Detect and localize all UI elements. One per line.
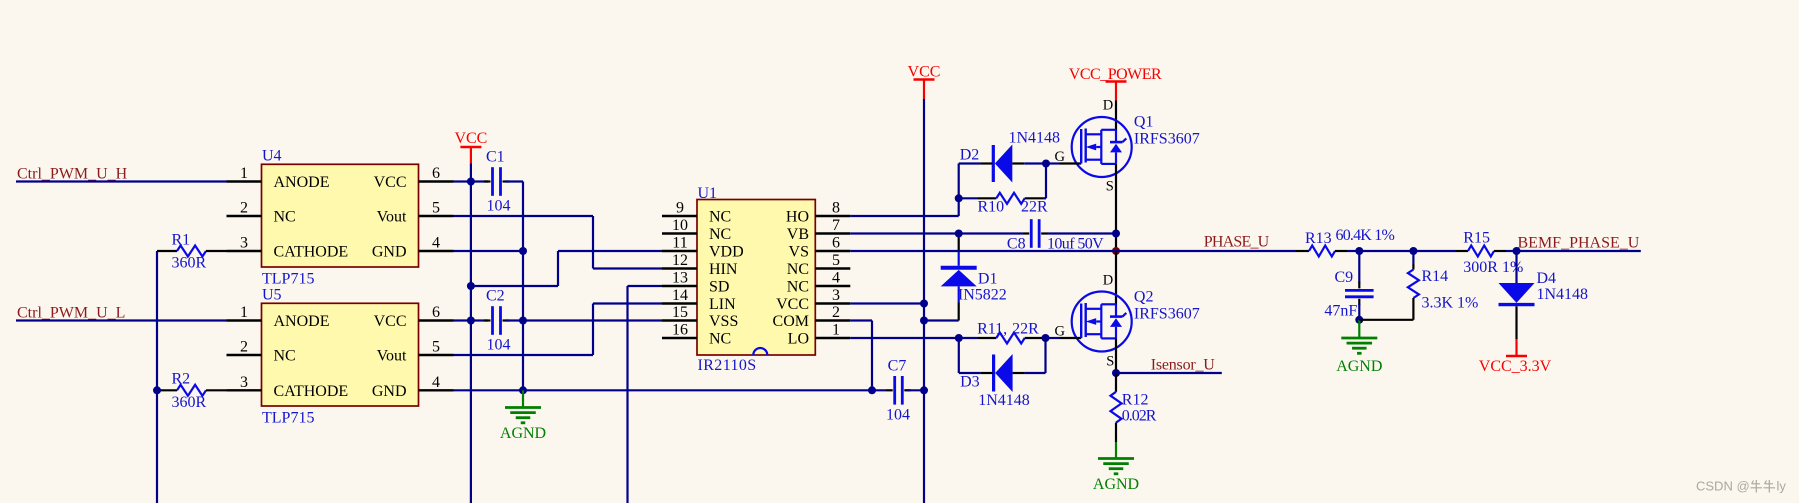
svg-text:D2: D2	[960, 147, 980, 164]
svg-text:ANODE: ANODE	[274, 174, 330, 191]
svg-text:D1: D1	[978, 271, 998, 288]
svg-text:4: 4	[432, 235, 440, 252]
svg-text:LIN: LIN	[709, 296, 736, 313]
svg-text:D4: D4	[1537, 270, 1557, 287]
svg-text:PHASE_U: PHASE_U	[1204, 234, 1270, 251]
svg-text:IR2110S: IR2110S	[698, 357, 757, 374]
diode D2 1N4148	[959, 130, 1060, 183]
junction VCC / U4 pin6	[467, 178, 475, 186]
svg-text:1: 1	[832, 322, 840, 339]
svg-text:10: 10	[672, 217, 688, 234]
svg-text:NC: NC	[787, 261, 809, 278]
watermark CSDN	[1696, 479, 1786, 494]
svg-text:VCC_3.3V: VCC_3.3V	[1479, 358, 1552, 375]
wire BEMF_PHASE_U net	[1517, 250, 1641, 252]
svg-text:6: 6	[432, 304, 440, 321]
svg-text:D: D	[1103, 98, 1113, 114]
svg-text:ly: ly	[1777, 479, 1787, 494]
wire Ctrl_PWM_U_L net	[16, 319, 227, 321]
wire U4 GND pin4	[454, 250, 524, 252]
svg-text:IN5822: IN5822	[958, 287, 1007, 304]
wire Q1 gate	[1046, 162, 1060, 164]
svg-text:R10: R10	[978, 199, 1005, 216]
transistor Q1 IRFS3607	[1060, 114, 1200, 178]
capacitor C1 104	[471, 149, 523, 215]
wire U5 VCC pin6	[454, 319, 471, 321]
junction AGND / VSS-C2	[519, 317, 527, 325]
svg-text:U4: U4	[262, 147, 282, 164]
junction R2 left	[153, 386, 161, 394]
svg-text:Ctrl_PWM_U_H: Ctrl_PWM_U_H	[17, 166, 128, 183]
power VCC (left)	[454, 130, 487, 164]
svg-text:Q1: Q1	[1134, 114, 1154, 131]
resistor R14 3.3K 1%	[1359, 251, 1478, 320]
junction LO / R11 left	[955, 334, 963, 342]
svg-text:VCC: VCC	[776, 296, 809, 313]
svg-text:2: 2	[832, 304, 840, 321]
svg-text:HIN: HIN	[709, 261, 738, 278]
svg-text:5: 5	[432, 200, 440, 217]
wire D1 branch	[924, 303, 959, 321]
junction phase node	[1112, 247, 1120, 255]
svg-text:NC: NC	[274, 209, 296, 226]
junction R14 top	[1409, 247, 1417, 255]
capacitor C9 47nF	[1324, 251, 1373, 320]
wire U1 VCC pin3	[850, 302, 924, 304]
power VCC (mid)	[908, 64, 941, 100]
svg-text:VS: VS	[789, 244, 809, 261]
svg-text:6: 6	[432, 165, 440, 182]
svg-text:3: 3	[240, 374, 248, 391]
svg-text:NC: NC	[274, 348, 296, 365]
svg-text:VCC: VCC	[374, 174, 407, 191]
svg-text:104: 104	[886, 406, 910, 423]
junction VCC / U5 pin6	[467, 317, 475, 325]
svg-text:R1: R1	[172, 232, 191, 249]
wire R10 right vertical	[1045, 164, 1047, 199]
wire Q2 drain	[1115, 251, 1117, 305]
wire Q2 gate	[1046, 337, 1061, 339]
diode D1 IN5822	[941, 234, 1007, 304]
junction VCC / C7	[920, 386, 928, 394]
svg-text:1N4148: 1N4148	[978, 392, 1030, 409]
svg-text:TLP715: TLP715	[262, 270, 314, 287]
svg-text:VDD: VDD	[709, 244, 744, 261]
svg-text:D3: D3	[960, 374, 980, 391]
svg-text:9: 9	[676, 200, 684, 217]
svg-text:AGND: AGND	[500, 425, 546, 442]
wire SD net	[628, 286, 663, 503]
wire Ctrl_PWM_U_H net	[16, 180, 227, 182]
svg-text:12: 12	[672, 252, 688, 269]
svg-text:4: 4	[832, 270, 840, 287]
svg-text:360R: 360R	[172, 394, 207, 411]
svg-text:22R: 22R	[1012, 321, 1039, 338]
svg-text:S: S	[1106, 179, 1114, 195]
svg-text:Isensor_U: Isensor_U	[1151, 356, 1216, 373]
junction VCC / U1 pin3	[920, 300, 928, 308]
svg-text:60.4K 1%: 60.4K 1%	[1336, 227, 1395, 244]
svg-text:R12: R12	[1122, 391, 1149, 408]
ground AGND (below R12)	[1115, 442, 1117, 459]
wire R14 to R15	[1413, 250, 1456, 252]
svg-text:U5: U5	[262, 286, 282, 303]
svg-text:3.3K 1%: 3.3K 1%	[1422, 295, 1479, 312]
diode D3 1N4148	[959, 338, 1046, 409]
ground AGND (right)	[1358, 320, 1360, 338]
junction Q2 gate node	[1042, 334, 1050, 342]
svg-text:C2: C2	[486, 288, 505, 305]
svg-text:C9: C9	[1335, 269, 1354, 286]
junction Q1 gate node	[1042, 160, 1050, 168]
svg-text:C7: C7	[888, 357, 907, 374]
svg-text:TLP715: TLP715	[262, 409, 314, 426]
resistor R13 60.4K 1%	[1296, 227, 1394, 257]
svg-text:IRFS3607: IRFS3607	[1134, 131, 1200, 148]
junction HO / R10 left	[955, 194, 963, 202]
junction AGND symbol (left)	[519, 386, 527, 394]
svg-text:Vout: Vout	[377, 348, 407, 365]
wire VDD net (VCC to U1 pin11)	[471, 251, 662, 286]
svg-text:CATHODE: CATHODE	[274, 383, 349, 400]
svg-text:IRFS3607: IRFS3607	[1134, 306, 1200, 323]
junction VB / C8 right	[1112, 230, 1120, 238]
junction COM / AGND row	[868, 386, 876, 394]
wire Q1 source to phase node	[1115, 164, 1117, 251]
optocoupler U5 TLP715	[227, 286, 454, 426]
svg-text:7: 7	[832, 217, 840, 234]
svg-text:VB: VB	[787, 226, 809, 243]
svg-text:3: 3	[240, 235, 248, 252]
power VCC_POWER	[1069, 66, 1162, 101]
svg-text:AGND: AGND	[1093, 476, 1139, 493]
svg-text:HO: HO	[786, 209, 809, 226]
svg-text:R13: R13	[1305, 230, 1332, 247]
svg-text:8: 8	[832, 200, 840, 217]
svg-text:D: D	[1103, 272, 1113, 288]
wire U4 VCC pin6	[454, 180, 471, 182]
resistor R10 22R	[959, 193, 1048, 216]
svg-text:300R 1%: 300R 1%	[1463, 259, 1523, 276]
svg-text:NC: NC	[709, 226, 731, 243]
junction Isensor node	[1112, 369, 1120, 377]
svg-text:1: 1	[240, 304, 248, 321]
capacitor C2 104	[471, 288, 523, 354]
wire Q1 drain	[1115, 101, 1117, 131]
svg-text:R2: R2	[172, 371, 191, 388]
svg-text:SD: SD	[709, 279, 729, 296]
svg-text:NC: NC	[709, 331, 731, 348]
svg-text:104: 104	[487, 337, 511, 354]
ground AGND (left)	[522, 390, 524, 407]
diode D4 1N4148	[1499, 251, 1589, 339]
wire VB net	[850, 232, 1023, 234]
svg-text:R11,: R11,	[977, 321, 1007, 338]
resistor R12 0.02R	[1111, 373, 1157, 442]
svg-text:14: 14	[672, 287, 688, 304]
svg-text:5: 5	[432, 339, 440, 356]
junction VCC / D1 branch	[920, 317, 928, 325]
svg-text:COM: COM	[773, 313, 809, 330]
svg-text:VCC: VCC	[908, 64, 941, 81]
svg-text:NC: NC	[709, 209, 731, 226]
wire COM to AGND	[850, 321, 872, 391]
svg-text:5: 5	[832, 252, 840, 269]
optocoupler U4 TLP715	[227, 147, 454, 287]
power VCC_3.3V	[1479, 339, 1552, 375]
wire VSS to AGND	[523, 319, 662, 321]
wire VCC vertical (left)	[470, 164, 472, 503]
wire HO net	[850, 164, 958, 217]
junction AGND / U4 pin4	[519, 247, 527, 255]
svg-text:R14: R14	[1422, 268, 1449, 285]
svg-text:6: 6	[832, 235, 840, 252]
svg-text:ANODE: ANODE	[274, 313, 330, 330]
svg-text:3: 3	[832, 287, 840, 304]
svg-text:1: 1	[240, 165, 248, 182]
svg-text:1N4148: 1N4148	[1537, 286, 1589, 303]
junction VCC / VDD branch	[467, 282, 475, 290]
svg-text:CATHODE: CATHODE	[274, 244, 349, 261]
svg-text:CSDN @: CSDN @	[1696, 479, 1750, 494]
svg-text:2: 2	[240, 200, 248, 217]
wire R13 to R14	[1359, 250, 1413, 252]
svg-text:22R: 22R	[1021, 199, 1048, 216]
svg-text:2: 2	[240, 339, 248, 356]
svg-text:13: 13	[672, 270, 688, 287]
svg-text:VCC: VCC	[454, 130, 487, 147]
svg-text:VCC: VCC	[374, 313, 407, 330]
capacitor C8 10uf 50V	[1007, 219, 1116, 252]
svg-text:11: 11	[672, 235, 687, 252]
wire LO net	[850, 337, 959, 339]
svg-text:S: S	[1106, 353, 1114, 369]
IC U1 IR2110S	[662, 185, 850, 374]
wire U5 Vout to U1 LIN	[454, 304, 663, 356]
svg-text:BEMF_PHASE_U: BEMF_PHASE_U	[1518, 234, 1640, 251]
transistor Q2 IRFS3607	[1060, 289, 1200, 352]
wire R1-R2 vertical	[156, 251, 158, 503]
svg-text:VSS: VSS	[709, 313, 738, 330]
resistor R2 360R	[157, 371, 227, 411]
wire VCC vertical (mid)	[923, 99, 925, 503]
svg-text:GND: GND	[372, 383, 407, 400]
wire U4 Vout to U1 HIN	[454, 216, 663, 269]
wire Q2 source	[1115, 339, 1117, 374]
svg-text:C1: C1	[486, 149, 505, 166]
svg-text:47nF: 47nF	[1324, 303, 1357, 320]
svg-text:R15: R15	[1463, 230, 1490, 247]
resistor R11 22R	[959, 321, 1046, 344]
svg-text:16: 16	[672, 322, 688, 339]
junction BEMF node	[1513, 247, 1521, 255]
svg-text:U1: U1	[698, 185, 718, 202]
wire VS / PHASE_U row	[850, 250, 1296, 252]
svg-text:Vout: Vout	[377, 209, 407, 226]
svg-text:NC: NC	[787, 279, 809, 296]
capacitor C7 104	[886, 357, 924, 423]
svg-text:1N4148: 1N4148	[1009, 130, 1061, 147]
wire AGND vertical (caps)	[522, 182, 524, 391]
wire AGND row	[454, 389, 887, 391]
resistor R1 360R	[157, 232, 227, 272]
svg-text:4: 4	[432, 374, 440, 391]
resistor R15 300R 1%	[1456, 230, 1523, 277]
svg-text:Ctrl_PWM_U_L: Ctrl_PWM_U_L	[17, 305, 125, 322]
svg-text:104: 104	[487, 198, 511, 215]
svg-text:LO: LO	[788, 331, 809, 348]
wire Isensor_U net	[1116, 372, 1222, 374]
svg-text:GND: GND	[372, 244, 407, 261]
junction VB / D1	[955, 230, 963, 238]
svg-text:AGND: AGND	[1336, 358, 1382, 375]
svg-text:Q2: Q2	[1134, 289, 1154, 306]
svg-text:360R: 360R	[172, 255, 207, 272]
svg-text:15: 15	[672, 304, 688, 321]
junction C9 top	[1355, 247, 1363, 255]
svg-text:0.02R: 0.02R	[1122, 407, 1157, 424]
junction C9 bottom	[1355, 316, 1363, 324]
